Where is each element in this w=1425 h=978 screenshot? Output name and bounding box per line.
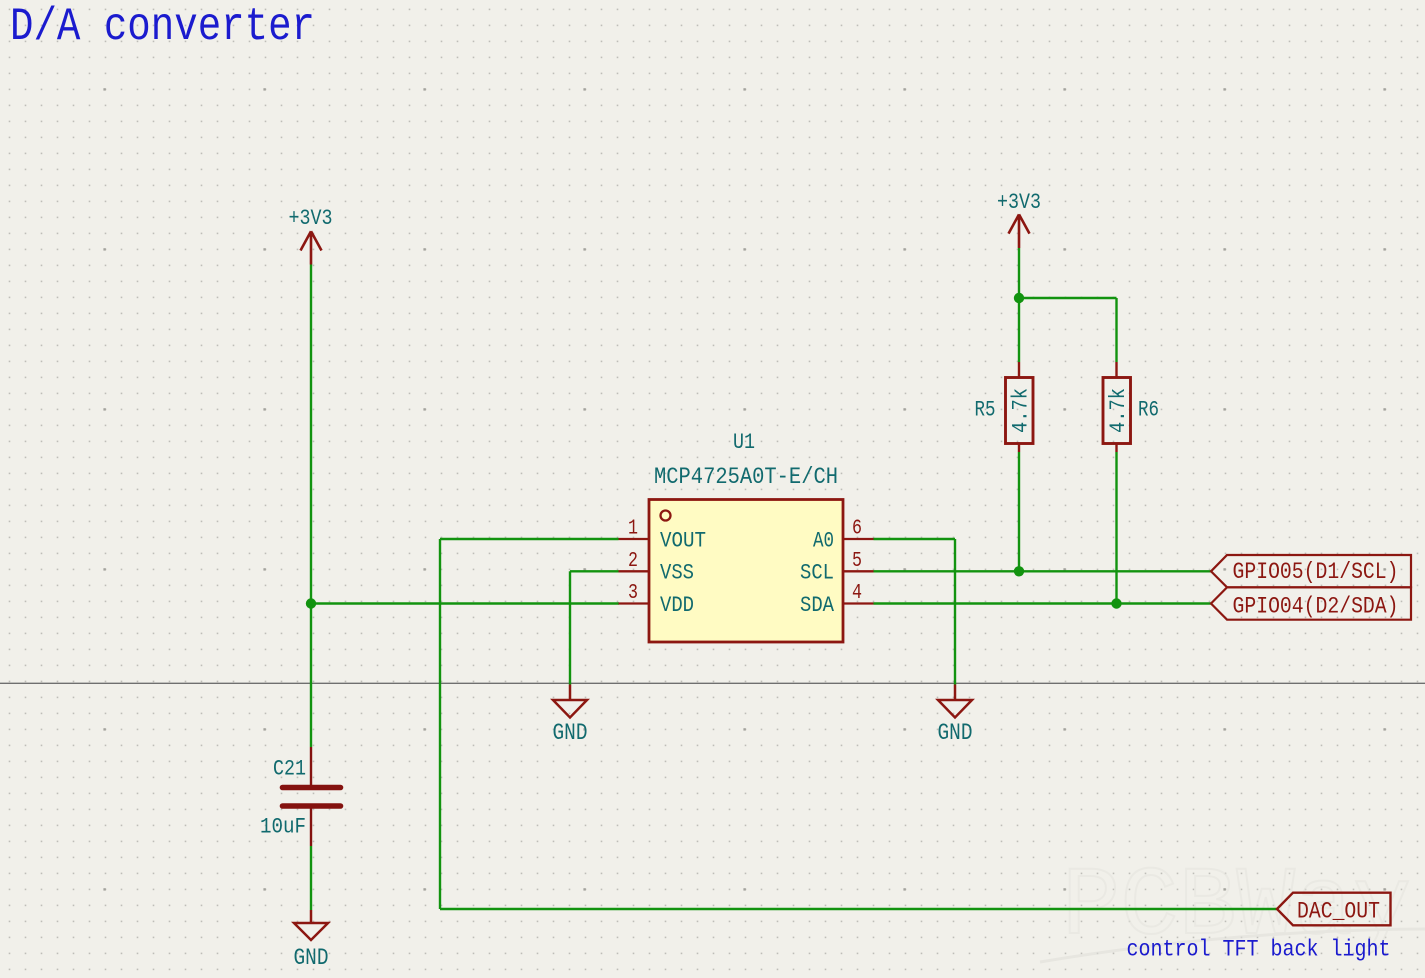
svg-text:D/A converter: D/A converter [10, 1, 315, 53]
junction SDA / R6 [1111, 598, 1121, 608]
svg-text:4: 4 [852, 582, 862, 605]
wire to R6 top horizontal [1019, 297, 1117, 299]
wire VSS vertical [569, 571, 571, 684]
svg-text:+3V3: +3V3 [289, 206, 333, 231]
svg-text:5: 5 [852, 550, 862, 573]
svg-text:VOUT: VOUT [660, 528, 706, 553]
svg-text:MCP4725A0T-E/CH: MCP4725A0T-E/CH [654, 464, 838, 490]
wire VOUT horizontal [440, 538, 619, 540]
svg-text:10uF: 10uF [260, 814, 306, 839]
junction at VDD tap [306, 598, 316, 608]
svg-text:GPIO05(D1/SCL): GPIO05(D1/SCL) [1233, 559, 1399, 585]
junction SCL / R5 [1014, 566, 1024, 576]
pin 5 SCL [843, 570, 874, 572]
svg-text:GPIO04(D2/SDA): GPIO04(D2/SDA) [1233, 594, 1399, 620]
pin 6 A0 [843, 538, 874, 540]
wire R6 top vertical [1115, 298, 1117, 362]
hierarchical label GPIO04(D2/SDA) [1211, 587, 1411, 619]
wire C21 to GND [310, 846, 312, 910]
junction +3V3 split [1014, 293, 1024, 303]
pin 1 VOUT [619, 538, 650, 540]
wire VOUT to DAC_OUT [440, 908, 1277, 910]
wire A0 vertical [954, 539, 956, 685]
power +3V3 (right) [1009, 214, 1030, 248]
pin 4 SDA [843, 602, 874, 604]
svg-text:R6: R6 [1138, 398, 1159, 423]
wire SCL [874, 570, 1212, 572]
svg-text:4.7k: 4.7k [1009, 388, 1034, 433]
svg-text:DAC_OUT: DAC_OUT [1297, 899, 1380, 925]
capacitor C21 [283, 747, 341, 846]
svg-text:GND: GND [553, 720, 588, 746]
wire VSS horizontal [570, 570, 619, 572]
svg-text:control TFT back light: control TFT back light [1127, 937, 1391, 963]
wire +3V3 right vertical [1018, 248, 1020, 362]
svg-text:SDA: SDA [800, 593, 835, 618]
wire R6 bottom [1115, 452, 1117, 604]
svg-text:3: 3 [628, 582, 638, 605]
svg-text:VSS: VSS [660, 561, 694, 586]
svg-text:GND: GND [938, 720, 973, 746]
svg-text:VDD: VDD [660, 593, 694, 618]
hierarchical label DAC_OUT [1277, 893, 1391, 926]
power +3V3 (left) [301, 231, 322, 264]
svg-text:+3V3: +3V3 [997, 190, 1041, 215]
resistor R5 [1006, 362, 1034, 452]
ground (left, VSS) [553, 685, 587, 718]
pin 2 VSS [619, 570, 650, 572]
svg-text:1: 1 [628, 518, 638, 541]
svg-text:U1: U1 [733, 430, 755, 455]
svg-text:4.7k: 4.7k [1106, 388, 1131, 433]
wire +3V3 left vertical [310, 265, 312, 748]
wire VOUT vertical [439, 539, 441, 909]
pin 3 VDD [619, 602, 650, 604]
svg-text:6: 6 [852, 518, 862, 541]
ground (right, A0) [938, 685, 972, 718]
wire R5 bottom [1018, 452, 1020, 571]
hierarchical label GPIO05(D1/SCL) [1211, 555, 1411, 587]
pin1 indicator circle [661, 511, 671, 521]
wire SDA [874, 602, 1212, 604]
op IC U1 MCP4725 body [649, 500, 843, 643]
svg-text:R5: R5 [975, 398, 996, 423]
wire VDD horizontal [311, 602, 619, 604]
wire A0 horizontal [874, 538, 956, 540]
svg-text:C21: C21 [273, 757, 306, 782]
svg-text:2: 2 [628, 550, 638, 573]
svg-text:GND: GND [294, 945, 329, 971]
ground (bottom, under C21) [294, 910, 328, 940]
resistor R6 [1103, 362, 1131, 452]
svg-text:A0: A0 [813, 528, 834, 553]
svg-text:SCL: SCL [800, 561, 834, 586]
